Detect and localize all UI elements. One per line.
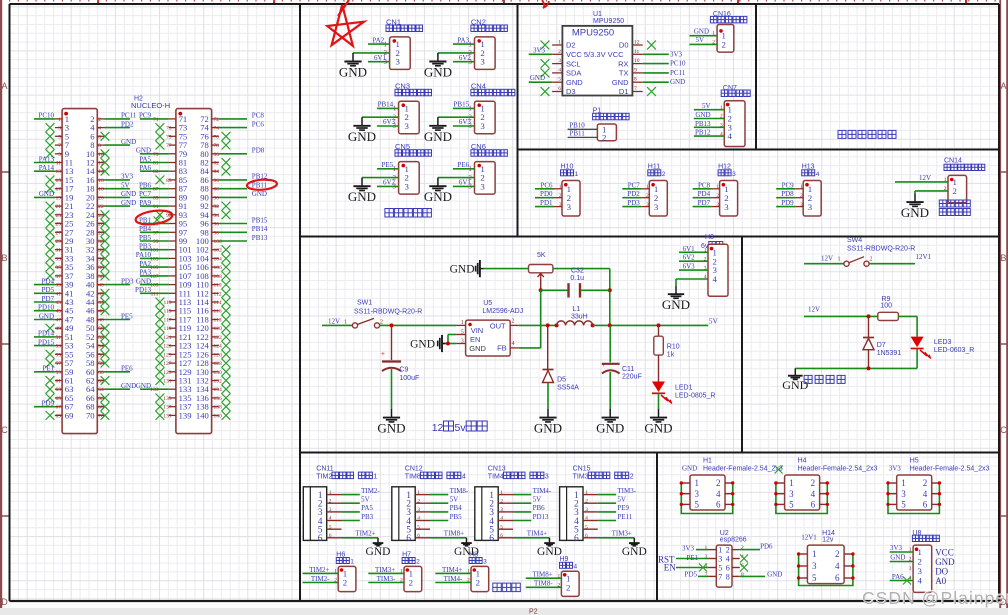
svg-text:D: D bbox=[1, 597, 8, 607]
svg-text:85: 85 bbox=[166, 178, 172, 184]
svg-text:111: 111 bbox=[151, 291, 159, 297]
svg-text:57: 57 bbox=[56, 361, 62, 367]
svg-text:5V: 5V bbox=[702, 102, 711, 110]
svg-text:PD14: PD14 bbox=[38, 330, 54, 338]
svg-text:107: 107 bbox=[150, 274, 159, 280]
svg-text:PC10: PC10 bbox=[38, 112, 54, 120]
svg-text:2: 2 bbox=[393, 174, 397, 182]
svg-text:81: 81 bbox=[153, 161, 159, 167]
svg-text:89: 89 bbox=[153, 195, 159, 201]
svg-text:96: 96 bbox=[214, 222, 220, 228]
svg-text:esp8266: esp8266 bbox=[720, 537, 747, 544]
svg-text:2: 2 bbox=[835, 549, 840, 559]
svg-text:2: 2 bbox=[343, 578, 347, 588]
svg-text:84: 84 bbox=[214, 169, 220, 175]
svg-text:PE11: PE11 bbox=[617, 513, 632, 521]
svg-text:3: 3 bbox=[909, 566, 912, 572]
svg-text:PE1: PE1 bbox=[686, 554, 698, 562]
svg-text:122: 122 bbox=[214, 335, 223, 341]
svg-text:TIM8: TIM8 bbox=[405, 474, 421, 481]
svg-text:40: 40 bbox=[98, 283, 104, 289]
svg-text:GND: GND bbox=[348, 189, 376, 204]
svg-text:TIM2-: TIM2- bbox=[361, 487, 380, 495]
svg-text:1: 1 bbox=[901, 478, 906, 488]
svg-text:105: 105 bbox=[150, 265, 159, 271]
svg-text:99: 99 bbox=[153, 239, 159, 245]
svg-text:PC6: PC6 bbox=[540, 181, 553, 189]
svg-text:106: 106 bbox=[214, 265, 223, 271]
svg-text:113: 113 bbox=[163, 300, 171, 306]
svg-text:8: 8 bbox=[634, 77, 637, 83]
svg-text:1: 1 bbox=[838, 257, 841, 263]
svg-text:PD15: PD15 bbox=[38, 338, 54, 346]
svg-text:101: 101 bbox=[150, 248, 159, 254]
svg-text:63: 63 bbox=[56, 387, 62, 393]
svg-text:4: 4 bbox=[462, 474, 466, 481]
svg-text:3: 3 bbox=[718, 555, 722, 564]
svg-text:GND: GND bbox=[682, 465, 697, 473]
svg-text:+: + bbox=[381, 351, 385, 358]
svg-text:1: 1 bbox=[373, 474, 377, 481]
svg-text:3: 3 bbox=[732, 171, 736, 178]
svg-text:PC7: PC7 bbox=[139, 190, 152, 198]
svg-text:PC7: PC7 bbox=[628, 181, 641, 189]
svg-text:25: 25 bbox=[56, 222, 62, 228]
svg-text:D7: D7 bbox=[877, 342, 886, 349]
svg-text:PC8: PC8 bbox=[698, 181, 711, 189]
svg-text:PD3: PD3 bbox=[121, 277, 134, 285]
svg-text:88: 88 bbox=[214, 187, 220, 193]
svg-text:3: 3 bbox=[483, 559, 487, 566]
svg-text:2: 2 bbox=[716, 478, 721, 488]
svg-text:PB4: PB4 bbox=[139, 225, 152, 233]
svg-text:3V3: 3V3 bbox=[890, 544, 903, 552]
svg-text:11: 11 bbox=[634, 49, 640, 55]
svg-text:3: 3 bbox=[545, 474, 549, 481]
svg-text:PA10: PA10 bbox=[136, 251, 152, 259]
svg-text:TIM2+: TIM2+ bbox=[309, 566, 329, 574]
svg-text:RX: RX bbox=[618, 59, 628, 68]
svg-text:GND: GND bbox=[622, 546, 647, 558]
svg-text:4: 4 bbox=[728, 131, 733, 141]
svg-text:1: 1 bbox=[468, 105, 472, 113]
svg-text:140: 140 bbox=[214, 413, 223, 419]
svg-text:118: 118 bbox=[214, 318, 222, 324]
svg-text:102: 102 bbox=[214, 248, 223, 254]
svg-text:PC11: PC11 bbox=[670, 69, 686, 77]
svg-text:PA13: PA13 bbox=[39, 155, 55, 163]
svg-text:1: 1 bbox=[575, 171, 579, 178]
svg-text:137: 137 bbox=[163, 405, 172, 411]
svg-text:67: 67 bbox=[56, 405, 62, 411]
svg-text:2: 2 bbox=[409, 578, 413, 588]
svg-text:GND: GND bbox=[670, 78, 685, 86]
svg-text:77: 77 bbox=[166, 143, 172, 149]
svg-text:33uH: 33uH bbox=[571, 313, 588, 320]
svg-text:41: 41 bbox=[56, 291, 62, 297]
svg-text:PB15: PB15 bbox=[454, 101, 470, 109]
svg-text:PD1: PD1 bbox=[540, 199, 553, 207]
svg-text:128: 128 bbox=[214, 361, 223, 367]
svg-text:3: 3 bbox=[901, 489, 906, 499]
svg-text:3: 3 bbox=[480, 57, 485, 67]
svg-text:94: 94 bbox=[214, 213, 220, 219]
svg-text:1: 1 bbox=[468, 165, 472, 173]
svg-text:VIN: VIN bbox=[471, 326, 484, 335]
svg-text:PB3: PB3 bbox=[361, 513, 374, 521]
svg-text:19: 19 bbox=[56, 195, 62, 201]
svg-text:126: 126 bbox=[214, 352, 223, 358]
svg-text:2: 2 bbox=[918, 557, 922, 567]
svg-text:GND: GND bbox=[566, 78, 583, 87]
svg-text:124: 124 bbox=[214, 344, 223, 350]
svg-text:5V: 5V bbox=[709, 316, 719, 325]
svg-text:3: 3 bbox=[58, 126, 61, 132]
svg-text:3V3: 3V3 bbox=[889, 465, 902, 473]
svg-text:GND: GND bbox=[694, 28, 709, 36]
svg-text:2: 2 bbox=[662, 171, 666, 178]
svg-text:GND: GND bbox=[534, 421, 562, 436]
svg-text:74: 74 bbox=[214, 126, 220, 132]
svg-text:4: 4 bbox=[816, 171, 820, 178]
svg-text:2: 2 bbox=[476, 578, 480, 588]
svg-text:PD6: PD6 bbox=[760, 543, 773, 551]
svg-text:PE1: PE1 bbox=[42, 365, 54, 373]
svg-text:R10: R10 bbox=[667, 344, 680, 351]
svg-text:4: 4 bbox=[923, 489, 928, 499]
svg-text:112: 112 bbox=[214, 291, 222, 297]
svg-text:4: 4 bbox=[558, 67, 561, 73]
svg-text:49: 49 bbox=[56, 326, 62, 332]
svg-text:PB11: PB11 bbox=[569, 130, 585, 138]
svg-text:97: 97 bbox=[153, 230, 159, 236]
svg-text:PD3: PD3 bbox=[627, 199, 640, 207]
svg-text:PD13: PD13 bbox=[135, 286, 151, 294]
svg-text:4: 4 bbox=[726, 555, 730, 564]
svg-text:PB13: PB13 bbox=[695, 120, 711, 128]
svg-text:TIM3-: TIM3- bbox=[617, 487, 636, 495]
svg-text:43: 43 bbox=[56, 300, 62, 306]
svg-text:TIM8-: TIM8- bbox=[450, 487, 469, 495]
svg-text:PB5: PB5 bbox=[450, 513, 463, 521]
svg-text:5: 5 bbox=[558, 77, 561, 83]
svg-text:CN15: CN15 bbox=[573, 465, 591, 472]
svg-text:109: 109 bbox=[150, 283, 159, 289]
svg-text:1N5391: 1N5391 bbox=[877, 350, 902, 357]
svg-text:PD2: PD2 bbox=[627, 190, 640, 198]
svg-text:PD4: PD4 bbox=[698, 190, 711, 198]
svg-text:PD13: PD13 bbox=[533, 513, 549, 521]
svg-text:6V2: 6V2 bbox=[683, 254, 696, 262]
svg-text:CN13: CN13 bbox=[488, 465, 506, 472]
svg-text:6: 6 bbox=[489, 534, 494, 544]
svg-text:2: 2 bbox=[870, 257, 873, 263]
svg-text:100: 100 bbox=[214, 239, 223, 245]
svg-text:1: 1 bbox=[918, 547, 922, 557]
svg-text:PB14: PB14 bbox=[378, 101, 394, 109]
svg-text:5v: 5v bbox=[455, 422, 467, 434]
svg-text:PD5: PD5 bbox=[42, 286, 55, 294]
svg-text:16: 16 bbox=[98, 178, 104, 184]
svg-text:100: 100 bbox=[880, 303, 892, 310]
svg-text:5: 5 bbox=[461, 329, 464, 335]
svg-text:6: 6 bbox=[98, 134, 101, 140]
svg-text:3: 3 bbox=[468, 183, 472, 191]
svg-text:5V: 5V bbox=[533, 496, 542, 504]
svg-text:120: 120 bbox=[214, 326, 223, 332]
svg-text:PD0: PD0 bbox=[540, 190, 553, 198]
svg-text:H1: H1 bbox=[703, 457, 712, 464]
svg-text:TX: TX bbox=[619, 69, 629, 78]
svg-text:LED3: LED3 bbox=[934, 339, 952, 346]
svg-text:GND: GND bbox=[39, 312, 54, 320]
svg-text:22: 22 bbox=[98, 204, 104, 210]
svg-text:4: 4 bbox=[512, 341, 515, 347]
svg-text:6: 6 bbox=[406, 534, 411, 544]
svg-text:136: 136 bbox=[214, 396, 223, 402]
svg-text:PA14: PA14 bbox=[39, 164, 55, 172]
svg-text:PB14: PB14 bbox=[252, 225, 268, 233]
svg-text:2: 2 bbox=[468, 113, 472, 121]
svg-text:GND: GND bbox=[39, 190, 54, 198]
svg-text:GND: GND bbox=[596, 421, 624, 436]
svg-text:1: 1 bbox=[344, 320, 347, 326]
svg-text:6: 6 bbox=[558, 86, 561, 92]
svg-text:GND: GND bbox=[537, 546, 562, 558]
svg-text:12V: 12V bbox=[821, 255, 833, 263]
svg-text:92: 92 bbox=[214, 204, 220, 210]
svg-text:3: 3 bbox=[812, 561, 817, 571]
svg-text:SW1: SW1 bbox=[357, 300, 372, 307]
svg-text:116: 116 bbox=[214, 309, 222, 315]
svg-text:PE9: PE9 bbox=[617, 504, 629, 512]
svg-text:SDA: SDA bbox=[566, 69, 581, 78]
svg-text:119: 119 bbox=[163, 326, 171, 332]
svg-text:GND: GND bbox=[339, 65, 367, 80]
svg-text:134: 134 bbox=[214, 387, 223, 393]
svg-text:PC9: PC9 bbox=[139, 112, 152, 120]
svg-text:5V: 5V bbox=[695, 36, 704, 44]
svg-text:3: 3 bbox=[654, 202, 659, 212]
svg-text:PB4: PB4 bbox=[450, 504, 463, 512]
svg-text:71: 71 bbox=[153, 117, 159, 123]
svg-text:8: 8 bbox=[98, 143, 101, 149]
svg-text:PC10: PC10 bbox=[670, 60, 686, 68]
svg-text:1: 1 bbox=[58, 117, 61, 123]
svg-text:129: 129 bbox=[163, 370, 172, 376]
svg-text:1k: 1k bbox=[667, 352, 675, 359]
svg-text:PD5: PD5 bbox=[685, 571, 698, 579]
svg-text:6: 6 bbox=[923, 500, 928, 510]
svg-text:PD2: PD2 bbox=[121, 120, 134, 128]
svg-text:A: A bbox=[1000, 81, 1006, 91]
svg-text:D2: D2 bbox=[566, 41, 576, 50]
svg-text:4: 4 bbox=[811, 489, 816, 499]
svg-text:115: 115 bbox=[163, 309, 171, 315]
svg-text:U1: U1 bbox=[593, 11, 602, 18]
svg-text:3: 3 bbox=[480, 121, 485, 131]
svg-text:C9: C9 bbox=[399, 367, 408, 374]
svg-text:9: 9 bbox=[58, 152, 61, 158]
svg-text:TIM2-: TIM2- bbox=[311, 575, 330, 583]
svg-text:8: 8 bbox=[726, 572, 730, 581]
svg-text:FB: FB bbox=[497, 344, 507, 353]
svg-text:1: 1 bbox=[393, 105, 397, 113]
svg-text:GND: GND bbox=[410, 339, 435, 351]
svg-text:6: 6 bbox=[726, 564, 730, 573]
svg-text:139: 139 bbox=[179, 410, 192, 420]
svg-text:CN14: CN14 bbox=[944, 158, 962, 165]
svg-text:PB13: PB13 bbox=[252, 234, 268, 242]
svg-text:PE5: PE5 bbox=[121, 312, 133, 320]
svg-text:45: 45 bbox=[56, 309, 62, 315]
svg-text:PB6: PB6 bbox=[533, 504, 546, 512]
svg-text:U8: U8 bbox=[912, 530, 921, 537]
svg-text:H5: H5 bbox=[910, 457, 919, 464]
svg-text:B: B bbox=[1000, 253, 1006, 263]
svg-text:C32: C32 bbox=[571, 268, 584, 275]
svg-text:5: 5 bbox=[901, 500, 906, 510]
svg-text:H3: H3 bbox=[705, 234, 714, 241]
svg-text:GND: GND bbox=[424, 129, 452, 144]
svg-text:D0: D0 bbox=[619, 41, 629, 50]
svg-text:GND: GND bbox=[662, 297, 690, 312]
svg-text:4: 4 bbox=[713, 274, 718, 284]
svg-text:3V3: 3V3 bbox=[121, 173, 134, 181]
svg-text:139: 139 bbox=[163, 413, 172, 419]
svg-text:EN: EN bbox=[470, 335, 480, 344]
svg-text:72: 72 bbox=[214, 117, 220, 123]
svg-text:79: 79 bbox=[153, 152, 159, 158]
svg-text:GND: GND bbox=[890, 554, 905, 562]
svg-text:Header-Female-2.54_2x3: Header-Female-2.54_2x3 bbox=[910, 465, 990, 472]
svg-text:2: 2 bbox=[512, 319, 515, 325]
svg-text:132: 132 bbox=[214, 379, 223, 385]
svg-text:98: 98 bbox=[214, 230, 220, 236]
svg-text:4: 4 bbox=[835, 561, 840, 571]
svg-text:100uF: 100uF bbox=[399, 375, 419, 382]
svg-text:73: 73 bbox=[166, 126, 172, 132]
svg-text:GND: GND bbox=[136, 277, 151, 285]
svg-text:121: 121 bbox=[163, 335, 172, 341]
svg-text:2: 2 bbox=[630, 474, 634, 481]
svg-text:PE6: PE6 bbox=[121, 365, 133, 373]
svg-text:78: 78 bbox=[214, 143, 220, 149]
svg-text:CN12: CN12 bbox=[405, 465, 423, 472]
svg-text:47: 47 bbox=[56, 318, 62, 324]
svg-text:PD4: PD4 bbox=[42, 277, 55, 285]
svg-text:2: 2 bbox=[923, 478, 928, 488]
svg-text:7: 7 bbox=[718, 572, 722, 581]
svg-text:PB10: PB10 bbox=[569, 121, 585, 129]
svg-text:TIM4+: TIM4+ bbox=[527, 530, 547, 538]
svg-text:3: 3 bbox=[405, 121, 410, 131]
svg-text:PA9: PA9 bbox=[139, 199, 151, 207]
svg-text:5: 5 bbox=[58, 134, 61, 140]
svg-text:U5: U5 bbox=[483, 300, 492, 307]
svg-text:114: 114 bbox=[214, 300, 222, 306]
svg-text:PB6: PB6 bbox=[139, 182, 152, 190]
svg-text:PA5: PA5 bbox=[361, 504, 373, 512]
svg-text:NUCLEO-H: NUCLEO-H bbox=[131, 101, 170, 110]
svg-text:82: 82 bbox=[214, 161, 220, 167]
svg-text:GND: GND bbox=[121, 199, 136, 207]
svg-text:GND: GND bbox=[450, 264, 475, 276]
svg-text:GND: GND bbox=[612, 78, 629, 87]
svg-text:4: 4 bbox=[918, 576, 923, 586]
svg-text:13: 13 bbox=[56, 169, 62, 175]
svg-text:3: 3 bbox=[808, 202, 813, 212]
svg-text:220uF: 220uF bbox=[622, 374, 642, 381]
svg-text:Header-Female-2.54_2x3: Header-Female-2.54_2x3 bbox=[703, 465, 783, 472]
svg-text:TIM4-: TIM4- bbox=[444, 575, 463, 583]
svg-text:3: 3 bbox=[567, 202, 572, 212]
svg-text:LM2596-ADJ: LM2596-ADJ bbox=[482, 308, 523, 315]
svg-text:3: 3 bbox=[393, 183, 397, 191]
svg-text:27: 27 bbox=[56, 230, 62, 236]
svg-text:2: 2 bbox=[468, 49, 472, 57]
svg-text:5K: 5K bbox=[537, 252, 546, 259]
svg-text:0.1u: 0.1u bbox=[570, 275, 584, 282]
svg-text:65: 65 bbox=[56, 396, 62, 402]
svg-text:PA6: PA6 bbox=[892, 573, 904, 581]
svg-text:GND: GND bbox=[469, 344, 486, 353]
svg-text:3: 3 bbox=[468, 58, 472, 66]
svg-text:80: 80 bbox=[214, 152, 220, 158]
svg-text:20: 20 bbox=[98, 195, 104, 201]
svg-text:C: C bbox=[1, 425, 8, 435]
svg-text:3: 3 bbox=[384, 58, 388, 66]
svg-text:39: 39 bbox=[56, 283, 62, 289]
svg-text:3V3: 3V3 bbox=[682, 544, 695, 552]
svg-text:64: 64 bbox=[98, 387, 104, 393]
svg-text:110: 110 bbox=[214, 283, 222, 289]
svg-text:1: 1 bbox=[812, 549, 817, 559]
svg-text:2: 2 bbox=[811, 478, 816, 488]
svg-text:GND: GND bbox=[424, 65, 452, 80]
svg-text:TIM3+: TIM3+ bbox=[612, 530, 632, 538]
svg-text:3: 3 bbox=[789, 489, 794, 499]
svg-text:GND: GND bbox=[530, 74, 545, 82]
svg-text:12v: 12v bbox=[822, 537, 834, 544]
svg-text:12: 12 bbox=[432, 422, 444, 434]
svg-text:3: 3 bbox=[918, 566, 923, 576]
svg-text:PD8: PD8 bbox=[781, 190, 794, 198]
svg-text:135: 135 bbox=[163, 396, 172, 402]
svg-text:2: 2 bbox=[558, 49, 561, 55]
svg-text:91: 91 bbox=[153, 204, 159, 210]
svg-text:GND: GND bbox=[252, 190, 267, 198]
svg-text:87: 87 bbox=[153, 187, 159, 193]
svg-text:4: 4 bbox=[574, 563, 578, 570]
svg-text:3: 3 bbox=[461, 338, 464, 344]
svg-text:75: 75 bbox=[166, 134, 172, 140]
svg-text:SCL: SCL bbox=[566, 59, 581, 68]
svg-text:VCC 5/3.3V VCC: VCC 5/3.3V VCC bbox=[566, 50, 624, 59]
svg-text:3V3: 3V3 bbox=[533, 46, 546, 54]
svg-text:PA6: PA6 bbox=[139, 164, 151, 172]
svg-text:TIM2: TIM2 bbox=[316, 474, 332, 481]
svg-text:10: 10 bbox=[634, 58, 640, 64]
svg-text:1: 1 bbox=[558, 40, 561, 46]
svg-text:69: 69 bbox=[56, 413, 62, 419]
svg-text:6: 6 bbox=[811, 500, 816, 510]
svg-text:11: 11 bbox=[56, 161, 62, 167]
svg-text:GND: GND bbox=[782, 378, 808, 392]
svg-text:138: 138 bbox=[214, 405, 223, 411]
svg-text:86: 86 bbox=[214, 178, 220, 184]
svg-text:1: 1 bbox=[393, 165, 397, 173]
